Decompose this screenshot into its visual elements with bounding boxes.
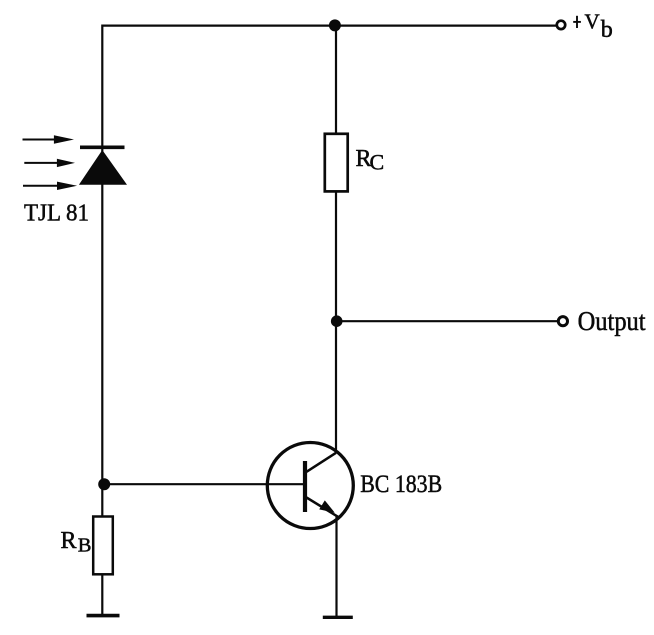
svg-text:R: R bbox=[61, 528, 77, 554]
svg-text:Output: Output bbox=[578, 305, 646, 336]
svg-text:b: b bbox=[601, 17, 613, 43]
svg-text:V: V bbox=[585, 10, 600, 34]
svg-text:TJL 81: TJL 81 bbox=[24, 199, 89, 226]
svg-text:BC 183B: BC 183B bbox=[360, 471, 442, 498]
svg-text:B: B bbox=[78, 534, 92, 556]
svg-text:C: C bbox=[370, 149, 385, 174]
